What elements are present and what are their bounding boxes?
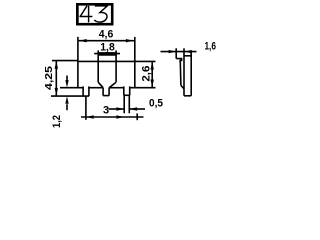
dimension 1,2 [51, 76, 78, 129]
dimension 3 [81, 104, 144, 120]
package body top edge + 2,6 top extension [78, 60, 156, 62]
dimension 1,8 [94, 42, 120, 56]
extension lines below right lead for dim 0,5 [124, 95, 129, 113]
tab tongue [98, 50, 116, 61]
svg-text:1,2: 1,2 [51, 115, 63, 128]
figure number box 43 [76, 3, 114, 26]
dimension 4,25 [44, 61, 89, 97]
side view tab plate front edge [180, 62, 184, 89]
dimension 4,6 [79, 28, 134, 42]
extension line 4,6 right / body right edge [134, 37, 136, 88]
svg-text:3: 3 [103, 104, 109, 116]
svg-text:4,6: 4,6 [99, 28, 114, 40]
svg-text:2,6: 2,6 [140, 66, 152, 82]
svg-text:0,5: 0,5 [149, 98, 163, 110]
dimension 2,6 [140, 61, 154, 87]
svg-text:1,6: 1,6 [204, 41, 216, 53]
side view body [184, 48, 191, 96]
center lead (tab through body with taper) [98, 61, 116, 95]
svg-text:4,25: 4,25 [44, 65, 55, 90]
extension below left lead for dim 3 [85, 96, 87, 120]
body bottom edge segments + 2,6 bottom extension [78, 87, 156, 89]
side view tongue tip extension line [175, 48, 177, 58]
right lead [124, 86, 130, 95]
dimension 0,5 [109, 98, 164, 111]
side view tongue underside and step [176, 59, 181, 63]
extension line 4,6 left / body left edge [77, 37, 79, 88]
left lead [83, 86, 89, 96]
svg-text:1,8: 1,8 [100, 42, 115, 54]
side view dimension 1,6 [161, 41, 216, 54]
